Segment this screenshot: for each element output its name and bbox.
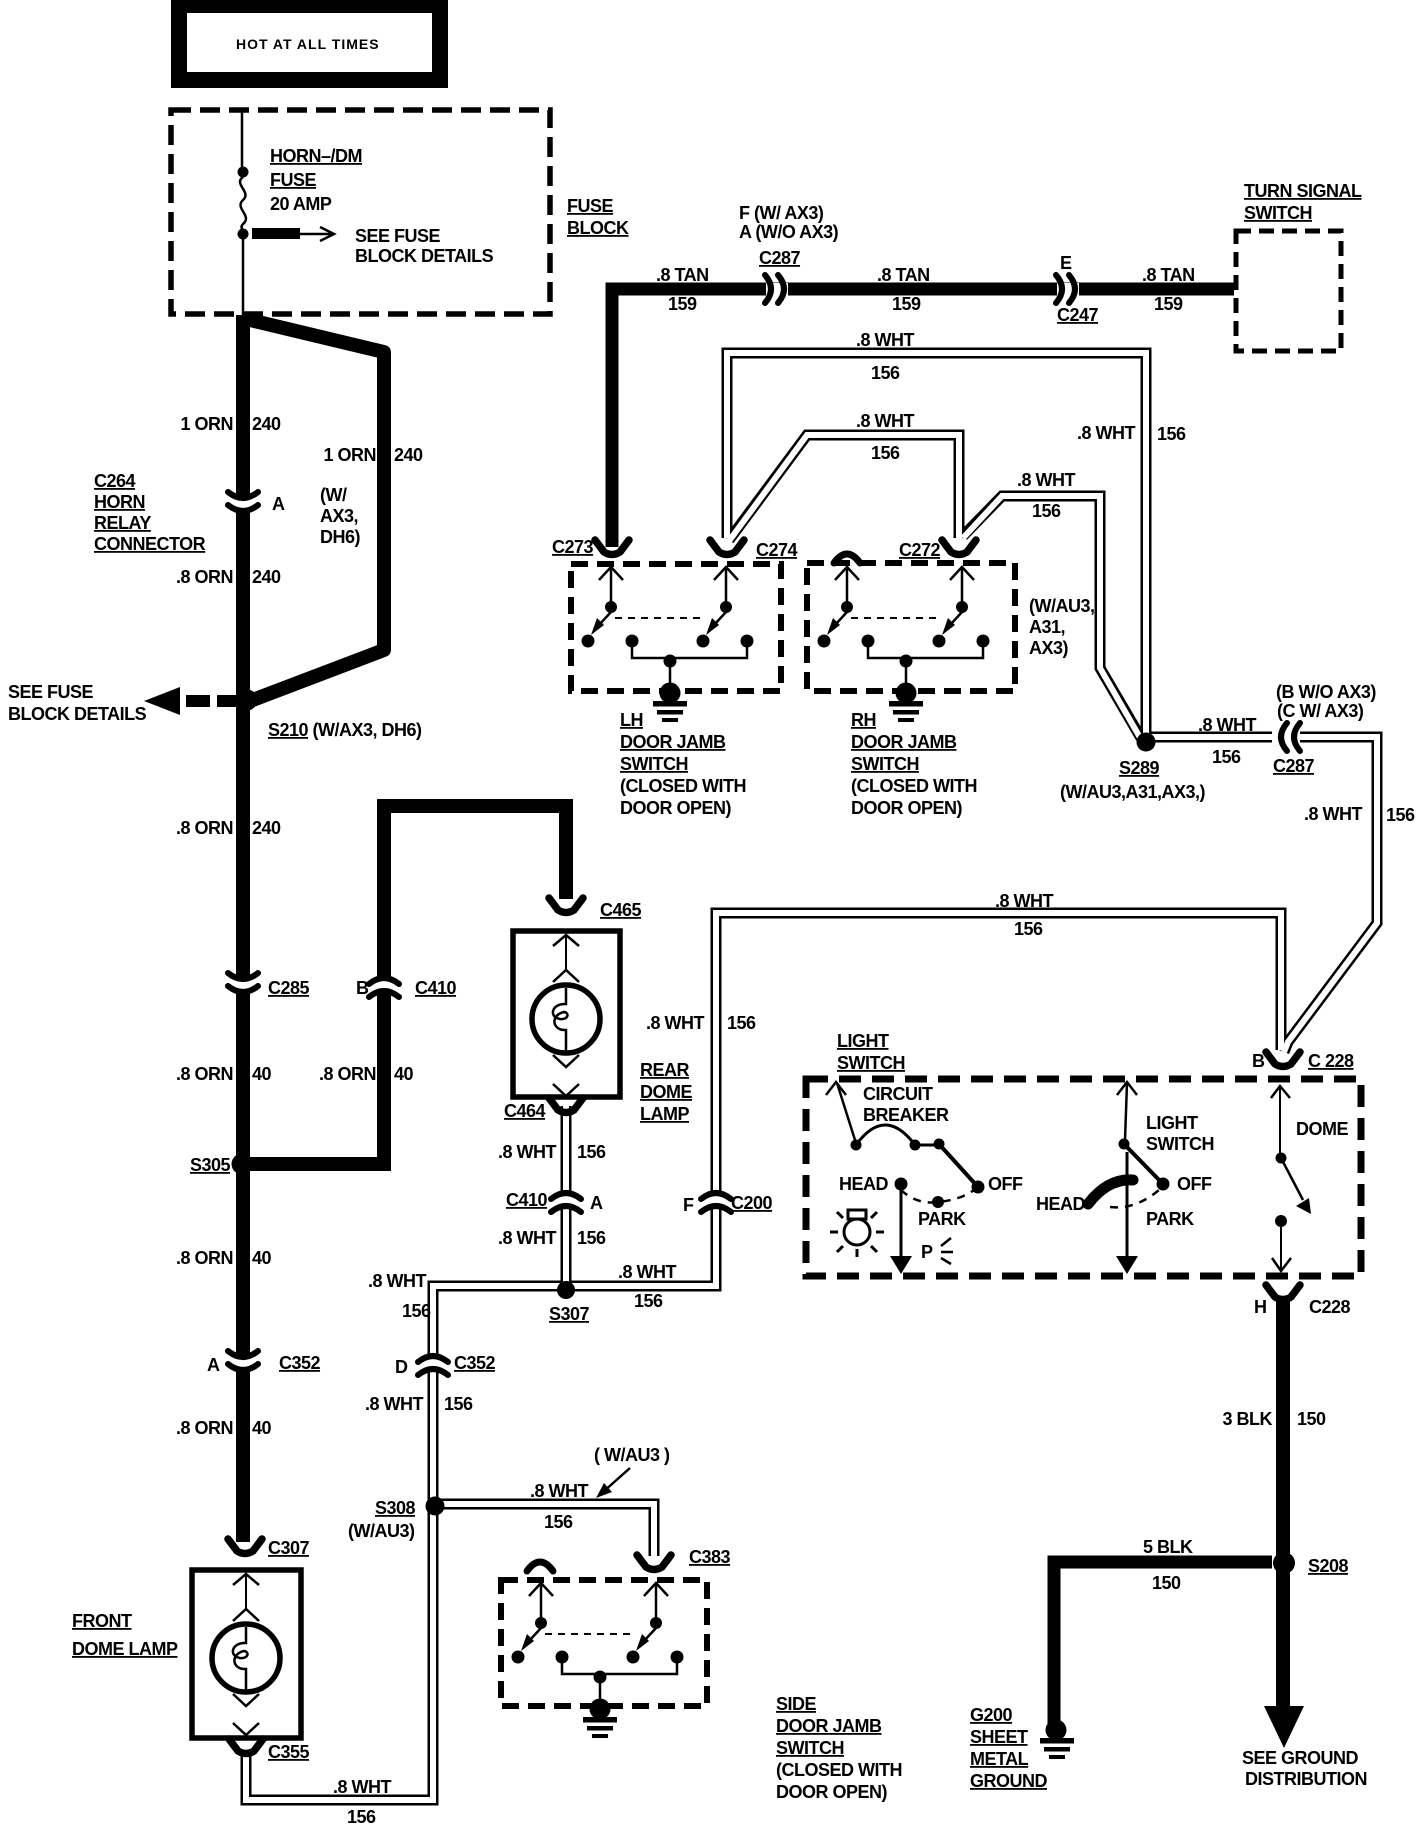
label .8 WHT 156 (bottom return wire) (333, 1777, 392, 1827)
wire thick tan fuse block to turn signal switch (612, 289, 1234, 547)
svg-text:156: 156 (871, 443, 900, 463)
svg-text:DOOR JAMB: DOOR JAMB (776, 1716, 882, 1736)
label S289 (W/AU3,A31,AX3,) (1060, 758, 1206, 802)
svg-text:FUSE: FUSE (270, 170, 317, 190)
svg-text:RELAY: RELAY (94, 513, 151, 533)
light switch circuit breaker pin arrow (826, 1082, 855, 1140)
label LH DOOR JAMB SWITCH (620, 710, 746, 818)
svg-text:5 BLK: 5 BLK (1143, 1537, 1193, 1557)
svg-text:SEE FUSE: SEE FUSE (355, 226, 441, 246)
svg-text:.8 TAN: .8 TAN (877, 265, 930, 285)
svg-text:REAR: REAR (640, 1060, 690, 1080)
svg-text:156: 156 (1032, 501, 1061, 521)
svg-text:156: 156 (871, 363, 900, 383)
LH door jamb switch interior (582, 567, 754, 722)
svg-text:SEE GROUND: SEE GROUND (1242, 1748, 1359, 1768)
wire S307 to C200 to light switch B (566, 913, 1281, 1286)
DOME output arrow (1272, 1227, 1291, 1271)
svg-text:.8 WHT: .8 WHT (368, 1271, 427, 1291)
svg-text:PARK: PARK (1146, 1209, 1194, 1229)
connector C352 A on main wire (207, 1351, 321, 1375)
connector C274 pin (710, 540, 798, 560)
svg-text:159: 159 (1154, 294, 1183, 314)
label TURN SIGNAL SWITCH (1244, 181, 1362, 223)
svg-text:.8 WHT: .8 WHT (856, 411, 915, 431)
HEAD thick selector arrow (middle) (1088, 1180, 1133, 1204)
label SEE FUSE BLOCK DETAILS (left) (8, 682, 147, 724)
svg-text:240: 240 (394, 445, 423, 465)
label .8 WHT 156 (S307 to B C228) (995, 891, 1054, 939)
label CIRCUIT BREAKER (863, 1084, 949, 1125)
svg-text:(CLOSED WITH: (CLOSED WITH (620, 776, 746, 796)
front dome lamp box (192, 1570, 301, 1738)
svg-text:.8 WHT: .8 WHT (646, 1013, 705, 1033)
HOT AT ALL TIMES box (179, 5, 440, 80)
DOME switch pin arrow (1271, 1086, 1290, 1153)
svg-text:(W/AU3,: (W/AU3, (1029, 596, 1095, 616)
svg-text:40: 40 (252, 1248, 272, 1268)
svg-text:PARK: PARK (918, 1209, 966, 1229)
svg-text:C287: C287 (759, 248, 801, 268)
svg-text:C273: C273 (552, 537, 594, 557)
label LIGHT SWITCH (inner) (1146, 1113, 1214, 1154)
label .8 WHT 156 (C464 to C410) (498, 1142, 606, 1162)
svg-text:.8 TAN: .8 TAN (656, 265, 709, 285)
svg-text:1 ORN: 1 ORN (180, 414, 233, 434)
svg-text:HORN: HORN (94, 492, 145, 512)
svg-text:SWITCH: SWITCH (1244, 203, 1312, 223)
svg-text:C287: C287 (1273, 756, 1315, 776)
label ( W/AU3 ) with pointer arrow (594, 1445, 670, 1498)
svg-text:C352: C352 (279, 1353, 321, 1373)
wire into fuse (241, 112, 244, 170)
svg-text:.8 ORN: .8 ORN (176, 1064, 233, 1084)
svg-text:C410: C410 (506, 1190, 548, 1210)
DOME switch pivot node (1276, 1153, 1287, 1164)
PARK contact node and dashed arc (left) (901, 1190, 974, 1229)
svg-text:.8 WHT: .8 WHT (1198, 715, 1257, 735)
side door jamb switch box (501, 1580, 707, 1706)
connector C410 A on rear dome drop (506, 1190, 603, 1213)
ground G200 symbol (1040, 1720, 1074, 1760)
svg-text:GROUND: GROUND (970, 1771, 1047, 1791)
label 3 BLK 150 (1222, 1409, 1326, 1429)
wire S307 to rear dome lamp C464 (561, 1106, 572, 1290)
svg-text:.8 WHT: .8 WHT (530, 1481, 589, 1501)
svg-text:HEAD: HEAD (839, 1174, 889, 1194)
svg-text:A: A (272, 494, 285, 514)
svg-text:DOOR OPEN): DOOR OPEN) (851, 798, 963, 818)
connector C464 pin at rear dome lamp bottom (504, 1098, 583, 1121)
svg-text:BLOCK DETAILS: BLOCK DETAILS (355, 246, 494, 266)
middle pivot node (1119, 1139, 1130, 1150)
svg-text:A: A (590, 1193, 603, 1213)
svg-text:159: 159 (892, 294, 921, 314)
label S210 (W/AX3, DH6) (268, 720, 422, 740)
svg-text:F: F (683, 1195, 694, 1215)
label .8 WHT 156 (C287 down leg) (1304, 804, 1415, 825)
svg-text:DOOR JAMB: DOOR JAMB (620, 732, 726, 752)
svg-text:DOOR OPEN): DOOR OPEN) (620, 798, 732, 818)
label .8 WHT 156 (loop3) (1017, 470, 1076, 521)
svg-text:S308: S308 (375, 1498, 416, 1518)
P park indicator (921, 1238, 953, 1264)
svg-text:240: 240 (252, 818, 281, 838)
label RH DOOR JAMB SWITCH (851, 710, 977, 818)
svg-text:D: D (395, 1357, 408, 1377)
label S308 (W/AU3) (348, 1498, 416, 1541)
label .8 TAN 159 (middle) (877, 265, 930, 314)
label FUSE BLOCK (567, 196, 629, 238)
PARK dashed arc (middle) (1110, 1190, 1159, 1207)
connector C307 pin at front dome lamp (228, 1538, 310, 1558)
DOME switch contact node (1275, 1215, 1287, 1227)
svg-text:156: 156 (544, 1512, 573, 1532)
label (W/ AX3, DH6) (320, 485, 361, 547)
svg-text:RH: RH (851, 710, 876, 730)
svg-text:.8 WHT: .8 WHT (856, 330, 915, 350)
connector C264 A on main wire (226, 492, 285, 514)
svg-text:156: 156 (1014, 919, 1043, 939)
node S289 (1137, 733, 1156, 752)
svg-text:S305: S305 (190, 1155, 231, 1175)
label LIGHT SWITCH (title) (837, 1031, 905, 1073)
svg-text:S208: S208 (1308, 1556, 1349, 1576)
DOME switch arm with arrowhead (1281, 1158, 1311, 1214)
svg-text:S307: S307 (549, 1304, 590, 1324)
see fuse block details arrow (in fuse box) (252, 227, 334, 241)
svg-text:156: 156 (444, 1394, 473, 1414)
connector C355 pin at front dome lamp bottom (229, 1739, 310, 1762)
lamp rear dome bulb (532, 935, 600, 1096)
wire S305 branch to rear dome lamp (240, 806, 566, 1164)
middle output arrow (1116, 1152, 1138, 1274)
label .8 WHT 156 (loop1 top) (856, 330, 915, 383)
wire S289 to C287 (1146, 732, 1272, 743)
svg-text:156: 156 (1157, 424, 1186, 444)
svg-text:.8 WHT: .8 WHT (1017, 470, 1076, 490)
svg-text:.8 TAN: .8 TAN (1142, 265, 1195, 285)
svg-text:OFF: OFF (988, 1174, 1023, 1194)
svg-text:40: 40 (252, 1064, 272, 1084)
label .8 WHT 156 (loop2) (856, 411, 915, 463)
svg-text:C247: C247 (1057, 305, 1099, 325)
svg-text:( W/AU3 ): ( W/AU3 ) (594, 1445, 670, 1465)
svg-text:.8 WHT: .8 WHT (498, 1228, 557, 1248)
svg-text:HEAD: HEAD (1036, 1194, 1086, 1214)
see fuse block details dashed arrow at S210 (144, 687, 239, 715)
svg-text:(W/AU3): (W/AU3) (348, 1521, 415, 1541)
hollow white-wire network (white core) (246, 353, 1377, 1800)
switch arm to OFF (left section) (939, 1144, 978, 1187)
svg-text:150: 150 (1152, 1573, 1181, 1593)
label .8 WHT 156 (S307 right) (618, 1262, 677, 1311)
svg-text:C383: C383 (689, 1547, 731, 1567)
node S305 (232, 1154, 253, 1175)
svg-text:156: 156 (1212, 747, 1241, 767)
wire thick rear dome lamp feed end / connector C465 pin (549, 898, 642, 920)
fuse HORN-/DM element (240, 177, 246, 230)
svg-text:FRONT: FRONT (72, 1611, 132, 1631)
svg-text:C200: C200 (731, 1193, 773, 1213)
label .8 WHT 156 (S307 left) (368, 1271, 431, 1321)
connector C410 B on branch (356, 978, 457, 998)
rear dome lamp box (513, 931, 620, 1097)
svg-text:C264: C264 (94, 471, 136, 491)
svg-text:156: 156 (1386, 805, 1415, 825)
headlamp icon (830, 1210, 884, 1257)
svg-text:G200: G200 (970, 1705, 1013, 1725)
svg-text:156: 156 (634, 1291, 663, 1311)
svg-text:DOME: DOME (1296, 1119, 1348, 1139)
svg-text:.8 ORN: .8 ORN (176, 818, 233, 838)
wire C287 to light switch B (1284, 737, 1377, 1052)
wire branch W/AX3 DH6 loop (246, 319, 384, 701)
connector C228 B pin (1252, 1051, 1354, 1071)
svg-text:SWITCH: SWITCH (1146, 1134, 1214, 1154)
svg-text:BLOCK DETAILS: BLOCK DETAILS (8, 704, 147, 724)
node S208 (1273, 1552, 1295, 1574)
svg-text:B: B (356, 978, 369, 998)
svg-text:150: 150 (1297, 1409, 1326, 1429)
node S210 (237, 690, 258, 711)
label G200 SHEET METAL GROUND (970, 1705, 1047, 1791)
label (B W/O AX3) (C W/ AX3) (1276, 682, 1376, 721)
svg-text:.8 WHT: .8 WHT (618, 1262, 677, 1282)
label .8 ORN 240 (below S210) (176, 818, 281, 838)
connector C247 E on tan wire (1056, 253, 1099, 325)
switch arm to OFF (middle) (1124, 1144, 1163, 1184)
label .8 ORN 240 (below C264) (176, 567, 281, 587)
svg-text:DOME LAMP: DOME LAMP (72, 1639, 178, 1659)
svg-text:BREAKER: BREAKER (863, 1105, 949, 1125)
svg-text:(W/: (W/ (320, 485, 347, 505)
label SEE GROUND DISTRIBUTION (1242, 1748, 1367, 1789)
unused pin cap on RH door jamb switch (834, 554, 860, 563)
svg-text:40: 40 (252, 1418, 272, 1438)
node S307 (557, 1281, 575, 1299)
svg-text:LAMP: LAMP (640, 1104, 689, 1124)
label REAR DOME LAMP (640, 1060, 692, 1124)
HEAD contact node (left) (895, 1178, 908, 1191)
fuse block dashed box (171, 110, 550, 314)
svg-text:METAL: METAL (970, 1749, 1029, 1769)
svg-text:C274: C274 (756, 540, 798, 560)
svg-text:156: 156 (402, 1301, 431, 1321)
svg-text:DISTRIBUTION: DISTRIBUTION (1245, 1769, 1367, 1789)
node fuse bottom (238, 229, 249, 240)
node S308 (426, 1497, 445, 1516)
svg-text:DOOR JAMB: DOOR JAMB (851, 732, 957, 752)
label .8 WHT 156 (loop1 right leg) (1077, 423, 1186, 444)
label .8 ORN 40 (below S305) (176, 1248, 272, 1268)
svg-text:AX3,: AX3, (320, 506, 358, 526)
wire S307 to S308 to front dome lamp C355 (246, 1286, 566, 1800)
wire fuse to main orange feed (242, 238, 245, 318)
wire 3 BLK from H to S208 and ground arrow (1276, 1299, 1290, 1712)
svg-text:LIGHT: LIGHT (837, 1031, 889, 1051)
svg-text:SIDE: SIDE (776, 1694, 817, 1714)
svg-text:F (W/ AX3): F (W/ AX3) (739, 203, 824, 223)
svg-text:159: 159 (668, 294, 697, 314)
see ground distribution arrow (1264, 1706, 1304, 1748)
svg-text:H: H (1254, 1297, 1267, 1317)
svg-text:.8 WHT: .8 WHT (1077, 423, 1136, 443)
svg-text:.8 WHT: .8 WHT (1304, 804, 1363, 824)
svg-text:C 228: C 228 (1308, 1051, 1354, 1071)
wire S308 to C383 (433, 1504, 654, 1556)
connector C272 pin (899, 540, 976, 560)
connector C285 on main wire (226, 973, 310, 998)
label C264 HORN RELAY CONNECTOR (94, 471, 206, 554)
wire C274 to S289 loop1 (727, 353, 1146, 735)
light switch dashed box (806, 1079, 1361, 1276)
svg-text:P: P (921, 1242, 933, 1262)
unused pin cap on side door jamb switch (527, 1562, 553, 1571)
side door jamb switch interior (512, 1583, 684, 1738)
svg-text:40: 40 (394, 1064, 414, 1084)
svg-text:CONNECTOR: CONNECTOR (94, 534, 206, 554)
svg-text:C307: C307 (268, 1538, 310, 1558)
connector C352 D on S308 riser (395, 1353, 496, 1377)
wire 5 BLK to G200 (1054, 1562, 1272, 1726)
hollow white-wire network (black underlay) (246, 353, 1377, 1800)
svg-text:.8 ORN: .8 ORN (176, 1418, 233, 1438)
svg-text:SWITCH: SWITCH (851, 754, 919, 774)
label .8 WHT 156 (riser to C200) (646, 1013, 756, 1033)
svg-text:HORN–/DM: HORN–/DM (270, 146, 362, 166)
label .8 WHT 156 (S308 to C383) (530, 1481, 589, 1532)
svg-text:B: B (1252, 1051, 1265, 1071)
circuit breaker arc (856, 1125, 915, 1145)
svg-text:(CLOSED WITH: (CLOSED WITH (776, 1760, 902, 1780)
svg-text:156: 156 (577, 1228, 606, 1248)
label SIDE DOOR JAMB SWITCH (776, 1694, 902, 1802)
svg-text:LH: LH (620, 710, 643, 730)
connector C200 F on riser (683, 1193, 773, 1215)
svg-text:C272: C272 (899, 540, 941, 560)
svg-text:S289: S289 (1119, 758, 1160, 778)
label HORN-/DM FUSE 20 AMP (270, 146, 362, 214)
light switch middle pin arrow (1117, 1082, 1137, 1140)
svg-text:C228: C228 (1309, 1297, 1351, 1317)
svg-text:C285: C285 (268, 978, 310, 998)
label FRONT DOME LAMP (72, 1611, 178, 1659)
RH door jamb switch box (807, 563, 1015, 691)
label .8 ORN 40 (left, below C285) (176, 1064, 272, 1084)
label .8 TAN 159 (left of C287) (656, 265, 709, 314)
svg-text:A31,: A31, (1029, 617, 1065, 637)
svg-text:SWITCH: SWITCH (620, 754, 688, 774)
svg-text:C465: C465 (600, 900, 642, 920)
svg-text:20 AMP: 20 AMP (270, 194, 332, 214)
wire main orange vertical (236, 315, 250, 1542)
svg-text:.8 WHT: .8 WHT (333, 1777, 392, 1797)
HEAD output arrow (left) (890, 1190, 912, 1274)
svg-text:A: A (207, 1355, 220, 1375)
svg-text:.8 WHT: .8 WHT (995, 891, 1054, 911)
svg-text:E: E (1060, 253, 1072, 273)
label .8 WHT 156 (C410 to S307) (498, 1228, 606, 1248)
svg-text:3 BLK: 3 BLK (1222, 1409, 1272, 1429)
svg-text:DH6): DH6) (320, 527, 361, 547)
label .8 TAN 159 (right) (1142, 265, 1195, 314)
svg-text:(CLOSED WITH: (CLOSED WITH (851, 776, 977, 796)
lamp front dome bulb (212, 1574, 280, 1735)
svg-text:AX3): AX3) (1029, 638, 1069, 658)
svg-text:.8 ORN: .8 ORN (176, 567, 233, 587)
svg-text:(B W/O AX3): (B W/O AX3) (1276, 682, 1376, 702)
RH door jamb switch interior (818, 567, 990, 722)
label .8 WHT 156 (above S308) (365, 1394, 473, 1414)
turn signal switch dashed box (1236, 231, 1341, 351)
label SEE FUSE BLOCK DETAILS (fuse box) (355, 226, 494, 266)
label .8 WHT 156 (S289 to C287) (1198, 715, 1257, 767)
svg-text:SEE FUSE: SEE FUSE (8, 682, 94, 702)
label 1 ORN 240 (main) (180, 414, 281, 434)
connector C383 pin at side door jamb switch (637, 1547, 731, 1570)
label (W/AU3, A31, AX3) (1029, 596, 1095, 658)
connector C228 H pin (1254, 1285, 1351, 1317)
svg-text:.8 ORN: .8 ORN (319, 1064, 376, 1084)
connector C287 (right) (1273, 723, 1315, 776)
svg-text:HOT AT ALL TIMES: HOT AT ALL TIMES (236, 36, 380, 52)
svg-text:FUSE: FUSE (567, 196, 614, 216)
svg-text:SHEET: SHEET (970, 1727, 1028, 1747)
svg-text:240: 240 (252, 567, 281, 587)
connector C287 on tan wire (759, 248, 801, 303)
svg-text:BLOCK: BLOCK (567, 218, 629, 238)
circuit breaker nodes (851, 1139, 945, 1151)
svg-text:C355: C355 (268, 1742, 310, 1762)
svg-text:DOME: DOME (640, 1082, 692, 1102)
svg-text:C352: C352 (454, 1353, 496, 1373)
svg-text:(W/AU3,A31,AX3,): (W/AU3,A31,AX3,) (1060, 782, 1206, 802)
label .8 ORN 40 (above C307) (176, 1418, 272, 1438)
svg-text:A (W/O AX3): A (W/O AX3) (739, 222, 839, 242)
svg-text:LIGHT: LIGHT (1146, 1113, 1198, 1133)
svg-text:156: 156 (347, 1807, 376, 1827)
node fuse top (238, 167, 249, 178)
svg-text:240: 240 (252, 414, 281, 434)
label 1 ORN 240 (branch) (323, 445, 423, 465)
svg-text:TURN SIGNAL: TURN SIGNAL (1244, 181, 1362, 201)
svg-text:C410: C410 (415, 978, 457, 998)
svg-text:DOOR OPEN): DOOR OPEN) (776, 1782, 888, 1802)
wire C272 to S289 loop3 (963, 496, 1141, 738)
svg-text:CIRCUIT: CIRCUIT (863, 1084, 933, 1104)
label 5 BLK 150 (1143, 1537, 1193, 1593)
svg-text:OFF: OFF (1177, 1174, 1212, 1194)
connector C273 pin (552, 537, 629, 557)
label .8 ORN 40 (branch) (319, 1064, 414, 1084)
svg-text:.8 WHT: .8 WHT (498, 1142, 557, 1162)
svg-text:S210 (W/AX3, DH6): S210 (W/AX3, DH6) (268, 720, 422, 740)
svg-text:.8 ORN: .8 ORN (176, 1248, 233, 1268)
label F (W/ AX3) A (W/O AX3) (739, 203, 839, 242)
svg-text:156: 156 (577, 1142, 606, 1162)
svg-text:1 ORN: 1 ORN (323, 445, 376, 465)
svg-text:SWITCH: SWITCH (776, 1738, 844, 1758)
svg-text:.8 WHT: .8 WHT (365, 1394, 424, 1414)
svg-text:SWITCH: SWITCH (837, 1053, 905, 1073)
svg-text:C464: C464 (504, 1101, 546, 1121)
LH door jamb switch box (571, 564, 781, 691)
svg-text:156: 156 (727, 1013, 756, 1033)
wire C274 to C272 loop2 (729, 435, 959, 540)
svg-text:(C W/ AX3): (C W/ AX3) (1277, 701, 1364, 721)
